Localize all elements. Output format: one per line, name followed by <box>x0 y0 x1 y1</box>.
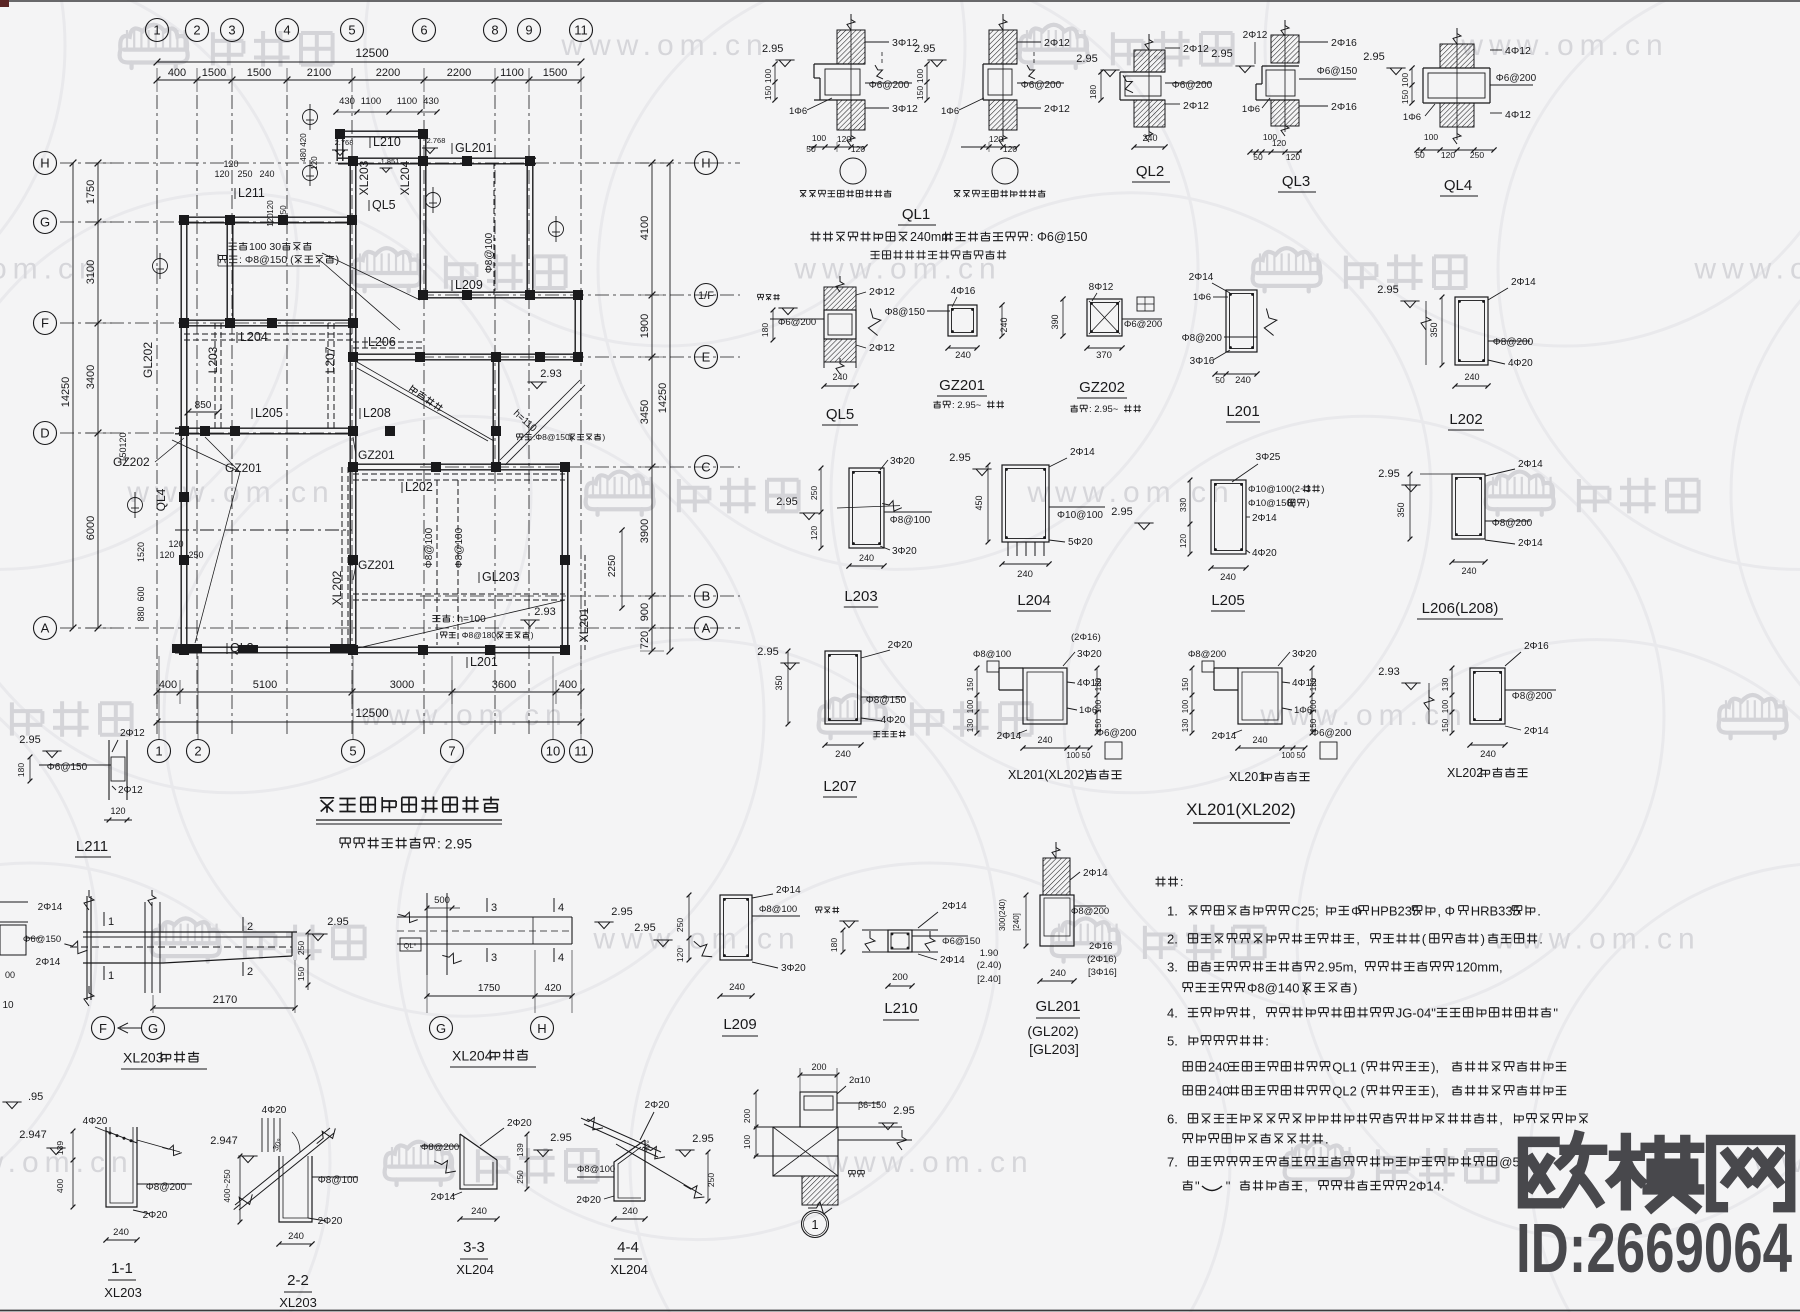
svg-text:100: 100 <box>742 1135 752 1149</box>
svg-text:L201: L201 <box>470 655 498 669</box>
svg-text:2.95: 2.95 <box>1377 284 1398 296</box>
svg-text:2Φ12: 2Φ12 <box>869 286 895 298</box>
svg-text:200: 200 <box>811 1062 826 1072</box>
svg-text:XL204: XL204 <box>610 1262 648 1277</box>
svg-text:2Φ20: 2Φ20 <box>645 1100 670 1111</box>
svg-text:120: 120 <box>989 134 1003 144</box>
svg-text:2Φ12: 2Φ12 <box>1183 100 1209 112</box>
svg-text:L203: L203 <box>844 588 877 605</box>
svg-text:XL201(XL202): XL201(XL202) <box>1186 800 1296 819</box>
svg-text:4Φ12: 4Φ12 <box>1505 45 1531 57</box>
svg-text:240: 240 <box>1464 372 1479 382</box>
svg-text:130: 130 <box>1441 677 1450 691</box>
svg-text:F: F <box>99 1021 107 1036</box>
svg-text:: Φ6@150: : Φ6@150 <box>1030 230 1087 244</box>
svg-text:120: 120 <box>266 200 275 214</box>
svg-text:4-4: 4-4 <box>617 1239 639 1256</box>
svg-text:50: 50 <box>1082 751 1091 760</box>
svg-text:3Φ25: 3Φ25 <box>1256 452 1281 463</box>
svg-text:240: 240 <box>1142 133 1157 143</box>
svg-text:50: 50 <box>1297 751 1306 760</box>
svg-text:8: 8 <box>491 23 498 38</box>
svg-text:www.om.cn: www.om.cn <box>1259 699 1467 732</box>
svg-text:1.90: 1.90 <box>980 948 999 959</box>
svg-text:2.95: 2.95 <box>611 906 632 918</box>
svg-text:2Φ14: 2Φ14 <box>38 902 63 913</box>
svg-text:10: 10 <box>546 744 560 759</box>
svg-text:2.768: 2.768 <box>335 138 354 147</box>
svg-text:XL203: XL203 <box>104 1285 142 1300</box>
svg-text:Φ8@100: Φ8@100 <box>759 904 797 915</box>
svg-text:130: 130 <box>1181 718 1190 732</box>
svg-text:Φ8@100: Φ8@100 <box>890 515 931 526</box>
svg-text:139: 139 <box>516 1143 525 1157</box>
svg-text:XL203: XL203 <box>123 1049 164 1065</box>
svg-text:240: 240 <box>259 169 274 179</box>
svg-text:www.om.cn: www.om.cn <box>1460 29 1668 62</box>
svg-text:L204: L204 <box>240 330 268 344</box>
svg-text:2Φ20: 2Φ20 <box>143 1210 168 1221</box>
svg-text:2: 2 <box>247 921 253 933</box>
svg-text:,: , <box>1304 1178 1308 1193</box>
svg-text:: Φ8@180(: : Φ8@180( <box>457 630 499 640</box>
svg-text:4Φ12: 4Φ12 <box>1292 678 1317 689</box>
svg-text:JG-04": JG-04" <box>1396 1005 1436 1020</box>
svg-text:50: 50 <box>806 144 816 154</box>
svg-text:): ) <box>1307 498 1310 509</box>
svg-text:2Φ16: 2Φ16 <box>1524 641 1549 652</box>
svg-text:880: 880 <box>136 606 146 621</box>
svg-text:Φ6@200: Φ6@200 <box>1021 80 1062 91</box>
svg-text:(2.40): (2.40) <box>977 960 1002 971</box>
svg-text:400: 400 <box>168 67 186 79</box>
svg-text:1Φ6: 1Φ6 <box>1294 705 1312 716</box>
svg-text:2.95: 2.95 <box>1363 51 1384 63</box>
svg-text:100: 100 <box>1400 73 1410 87</box>
svg-text:5100: 5100 <box>253 679 277 691</box>
svg-text:1Φ6: 1Φ6 <box>1242 104 1260 115</box>
svg-text:100: 100 <box>1181 699 1190 713</box>
svg-text:2.95: 2.95 <box>634 922 655 934</box>
svg-text:150: 150 <box>915 86 925 100</box>
svg-text:1/F: 1/F <box>698 290 714 302</box>
svg-text:L211: L211 <box>76 838 108 855</box>
svg-text:L201: L201 <box>1226 403 1259 420</box>
svg-text:120: 120 <box>266 213 275 227</box>
svg-text:11: 11 <box>574 23 588 38</box>
svg-text:XL202: XL202 <box>1447 766 1483 780</box>
svg-text:4Φ12: 4Φ12 <box>1505 109 1531 121</box>
svg-text:2250: 2250 <box>607 554 618 577</box>
svg-text:D: D <box>40 426 49 441</box>
svg-text:[3Φ16]: [3Φ16] <box>1088 967 1117 978</box>
svg-text:450: 450 <box>974 495 984 510</box>
svg-text:Φ8@150: Φ8@150 <box>885 307 926 318</box>
svg-text:350: 350 <box>1396 502 1406 517</box>
svg-text:GL202: GL202 <box>141 342 155 378</box>
svg-text:250: 250 <box>516 1170 525 1184</box>
svg-text:4Φ20: 4Φ20 <box>83 1116 108 1127</box>
svg-text:XL204: XL204 <box>452 1047 493 1063</box>
svg-text:Φ8@200: Φ8@200 <box>1071 906 1109 917</box>
svg-text:2.95: 2.95 <box>19 734 40 746</box>
svg-text:7: 7 <box>448 744 455 759</box>
svg-text:QL3: QL3 <box>1282 173 1310 190</box>
svg-text:2.95m,: 2.95m, <box>1317 959 1357 974</box>
svg-text:2200: 2200 <box>447 67 471 79</box>
svg-text:2200: 2200 <box>376 67 400 79</box>
svg-text:": " <box>1195 1178 1200 1193</box>
svg-text:14250: 14250 <box>60 377 72 408</box>
svg-text:2100: 2100 <box>307 67 331 79</box>
svg-text:": " <box>1553 1005 1558 1020</box>
svg-text:Φ10@100: Φ10@100 <box>1057 510 1103 521</box>
svg-text:3400: 3400 <box>85 365 97 389</box>
svg-text:): ) <box>1321 484 1324 495</box>
svg-text:, Φ: , Φ <box>1437 903 1455 918</box>
svg-text:240: 240 <box>1480 749 1496 760</box>
svg-text:1.: 1. <box>1167 903 1178 918</box>
svg-text:2.95: 2.95 <box>757 646 778 658</box>
svg-text:A: A <box>41 621 50 636</box>
svg-text:2Φ20: 2Φ20 <box>888 640 913 651</box>
svg-text:): ) <box>1481 931 1485 946</box>
svg-text:120: 120 <box>809 526 819 540</box>
svg-text:1500: 1500 <box>202 67 226 79</box>
svg-text:00: 00 <box>5 970 15 980</box>
svg-text:2Φ14: 2Φ14 <box>942 901 967 912</box>
svg-text:150: 150 <box>966 677 975 691</box>
svg-text:L207: L207 <box>323 346 337 373</box>
svg-text:H: H <box>40 156 49 171</box>
svg-text:QL1: QL1 <box>902 206 930 223</box>
svg-text:L203: L203 <box>206 346 220 373</box>
svg-text:2.95: 2.95 <box>1211 48 1232 60</box>
svg-text:L204: L204 <box>1017 592 1050 609</box>
svg-text:120: 120 <box>118 432 128 447</box>
svg-text:3: 3 <box>491 952 497 964</box>
svg-text:Φ6@200: Φ6@200 <box>1311 728 1352 739</box>
svg-text:Φ6@200: Φ6@200 <box>1096 728 1137 739</box>
svg-text:Φ8@100: Φ8@100 <box>318 1175 359 1186</box>
svg-text:2.95: 2.95 <box>1378 468 1399 480</box>
svg-text:2Φ16: 2Φ16 <box>1331 101 1357 113</box>
svg-text:300(240): 300(240) <box>998 899 1007 931</box>
svg-text:390: 390 <box>1050 314 1060 329</box>
svg-text:150: 150 <box>296 967 306 981</box>
svg-text:500: 500 <box>434 895 450 906</box>
svg-text:2Φ14: 2Φ14 <box>1083 868 1108 879</box>
svg-text:400: 400 <box>559 679 577 691</box>
svg-text:2Φ16: 2Φ16 <box>1331 37 1357 49</box>
svg-text:),: ), <box>1431 1083 1439 1098</box>
svg-text:2Φ14: 2Φ14 <box>1511 277 1536 288</box>
svg-text:240: 240 <box>729 982 745 993</box>
svg-text:1520: 1520 <box>136 542 146 562</box>
svg-text:180: 180 <box>16 763 26 777</box>
svg-text:3Φ20: 3Φ20 <box>1292 649 1317 660</box>
svg-text:Φ8@100: Φ8@100 <box>973 649 1011 660</box>
svg-text:G: G <box>436 1021 446 1036</box>
svg-text:100: 100 <box>763 69 773 83</box>
svg-text:240: 240 <box>1235 375 1251 386</box>
svg-text:XL202: XL202 <box>330 570 344 605</box>
svg-text:Φ6@200: Φ6@200 <box>869 80 910 91</box>
svg-text:720: 720 <box>639 631 651 649</box>
svg-text:240: 240 <box>1252 735 1267 745</box>
svg-text:2.947: 2.947 <box>210 1135 238 1147</box>
svg-text:1100: 1100 <box>361 96 381 107</box>
svg-text:.: . <box>1539 931 1543 946</box>
svg-text:3600: 3600 <box>492 679 516 691</box>
svg-text:100: 100 <box>1424 132 1438 142</box>
svg-text:2.95: 2.95 <box>550 1132 571 1144</box>
svg-text:Φ8@200: Φ8@200 <box>1182 333 1223 344</box>
svg-text:4Φ16: 4Φ16 <box>951 286 976 297</box>
svg-text:120: 120 <box>837 134 851 144</box>
svg-text:150: 150 <box>763 86 773 100</box>
svg-text:120: 120 <box>110 806 125 816</box>
svg-text:240: 240 <box>471 1206 487 1217</box>
svg-text:L211: L211 <box>238 186 265 200</box>
svg-text:250: 250 <box>188 550 203 560</box>
svg-text:50: 50 <box>1253 152 1263 162</box>
svg-text:240: 240 <box>1461 566 1476 576</box>
svg-text:1750: 1750 <box>85 180 97 204</box>
svg-text:),: ), <box>1431 1059 1439 1074</box>
svg-text:9: 9 <box>525 23 532 38</box>
svg-text:Φ10@100(2~3: Φ10@100(2~3 <box>1248 484 1311 495</box>
svg-text:4Φ20: 4Φ20 <box>1252 548 1277 559</box>
svg-text:: Φ8@150 (: : Φ8@150 ( <box>239 254 294 266</box>
svg-text:QL2: QL2 <box>1136 163 1164 180</box>
svg-text:11: 11 <box>574 744 588 759</box>
svg-text:2Φ12: 2Φ12 <box>1044 37 1070 49</box>
svg-text:100: 100 <box>915 69 925 83</box>
svg-text:4: 4 <box>283 23 290 38</box>
svg-text:L207: L207 <box>823 778 856 795</box>
svg-text:7.: 7. <box>1167 1154 1178 1169</box>
svg-text:14250: 14250 <box>657 383 669 414</box>
svg-text:QL4: QL4 <box>154 488 168 511</box>
svg-text:2Φ12: 2Φ12 <box>869 342 895 354</box>
svg-text:400: 400 <box>55 1179 65 1193</box>
svg-text:420: 420 <box>545 983 562 994</box>
svg-text:QL5: QL5 <box>826 406 854 423</box>
svg-text:2.93: 2.93 <box>540 368 561 380</box>
svg-text:240: 240 <box>1208 1083 1230 1098</box>
svg-text:8Φ12: 8Φ12 <box>1089 282 1114 293</box>
svg-text:2Φ16: 2Φ16 <box>1089 941 1112 952</box>
svg-text:GL201: GL201 <box>1035 998 1080 1015</box>
svg-text:Φ8@140 (: Φ8@140 ( <box>1247 980 1308 995</box>
svg-text:350: 350 <box>1429 322 1439 337</box>
svg-text:3.: 3. <box>1167 959 1178 974</box>
svg-text:2.93: 2.93 <box>1378 666 1399 678</box>
svg-text:1: 1 <box>155 744 162 759</box>
svg-text:2Φ14: 2Φ14 <box>36 957 61 968</box>
svg-text:2.95: 2.95 <box>762 43 783 55</box>
svg-text:[2.40]: [2.40] <box>977 974 1001 985</box>
svg-text:240: 240 <box>832 372 847 382</box>
svg-text:150: 150 <box>1441 718 1450 732</box>
svg-text:L205: L205 <box>255 406 283 420</box>
svg-text:Φ6@200: Φ6@200 <box>1172 80 1213 91</box>
svg-text:600: 600 <box>136 586 146 601</box>
svg-text:240: 240 <box>1050 968 1066 979</box>
svg-text:180: 180 <box>760 323 770 337</box>
svg-text:L206(L208): L206(L208) <box>1422 600 1499 617</box>
svg-text:150: 150 <box>1400 90 1410 104</box>
svg-text:XL201: XL201 <box>577 607 591 642</box>
svg-text:240: 240 <box>1037 735 1052 745</box>
svg-text:5Φ20: 5Φ20 <box>1068 537 1093 548</box>
svg-text:Φ8@200: Φ8@200 <box>421 1142 459 1153</box>
svg-text:3Φ20: 3Φ20 <box>892 546 917 557</box>
svg-text:3: 3 <box>491 902 497 914</box>
svg-text:1900: 1900 <box>639 314 651 338</box>
svg-text:400: 400 <box>159 679 177 691</box>
svg-text:200: 200 <box>892 972 908 983</box>
svg-text:Φ6@150: Φ6@150 <box>942 936 980 947</box>
svg-text:100: 100 <box>1281 751 1295 760</box>
svg-text:L210: L210 <box>884 1000 917 1017</box>
svg-text:240: 240 <box>999 317 1009 332</box>
svg-text:GZ201: GZ201 <box>939 377 985 394</box>
svg-text:6.: 6. <box>1167 1111 1178 1126</box>
svg-text:2170: 2170 <box>213 994 237 1006</box>
svg-text:4Φ20: 4Φ20 <box>1508 358 1533 369</box>
svg-text:4Φ20: 4Φ20 <box>262 1105 287 1116</box>
svg-text:Φ8@200: Φ8@200 <box>1188 649 1226 660</box>
svg-text:2.93: 2.93 <box>534 606 555 618</box>
svg-text:HPB235: HPB235 <box>1371 903 1419 918</box>
svg-text:2Φ14: 2Φ14 <box>1518 459 1543 470</box>
svg-text:": " <box>1226 1178 1231 1193</box>
svg-text:Φ8@100: Φ8@100 <box>577 1164 615 1175</box>
svg-text:240: 240 <box>1220 572 1236 583</box>
svg-text:Φ6@200: Φ6@200 <box>778 317 816 328</box>
svg-text:2Φ12: 2Φ12 <box>1044 103 1070 115</box>
svg-text:2.95: 2.95 <box>893 1105 914 1117</box>
svg-text:2Φ12: 2Φ12 <box>118 785 143 796</box>
svg-text:2.95: 2.95 <box>949 452 970 464</box>
svg-text:1500: 1500 <box>247 67 271 79</box>
svg-text:240: 240 <box>622 1206 638 1217</box>
svg-text:www.om.cn: www.om.cn <box>359 699 567 732</box>
svg-text:L210: L210 <box>373 135 401 149</box>
svg-text:www.om.cn: www.om.cn <box>0 1146 134 1179</box>
svg-text:139: 139 <box>55 1141 65 1155</box>
svg-text:L205: L205 <box>1211 592 1244 609</box>
svg-text:2.95: 2.95 <box>1076 53 1097 65</box>
svg-text:ID:2669064: ID:2669064 <box>1516 1209 1792 1287</box>
svg-text:120: 120 <box>1286 152 1300 162</box>
svg-text:XL201: XL201 <box>1229 770 1265 784</box>
svg-text:2Φ14: 2Φ14 <box>997 731 1022 742</box>
svg-text:L202: L202 <box>1449 411 1482 428</box>
svg-text:3900: 3900 <box>639 519 651 543</box>
svg-text:Φ6@150: Φ6@150 <box>47 762 88 773</box>
svg-text:200: 200 <box>742 1109 752 1123</box>
svg-text:,: , <box>1356 931 1360 946</box>
svg-text:(GL202): (GL202) <box>1027 1023 1078 1039</box>
svg-text:Φ8@200: Φ8@200 <box>1493 337 1534 348</box>
svg-text:GL203: GL203 <box>482 570 520 584</box>
svg-text:100: 100 <box>1441 699 1450 713</box>
svg-text:XL204: XL204 <box>398 160 412 195</box>
svg-text:420: 420 <box>299 133 308 147</box>
svg-text:1-1: 1-1 <box>111 1260 133 1277</box>
svg-text:Φ6@200: Φ6@200 <box>1496 73 1537 84</box>
svg-text:120: 120 <box>675 948 685 962</box>
svg-text:1Φ6: 1Φ6 <box>1403 112 1421 123</box>
svg-text:1: 1 <box>153 23 160 38</box>
svg-text:2.95: 2.95 <box>776 496 797 508</box>
svg-text:4.: 4. <box>1167 1005 1178 1020</box>
svg-text:2Φ14: 2Φ14 <box>1524 726 1549 737</box>
svg-text:240: 240 <box>835 749 851 760</box>
svg-text:2Φ14: 2Φ14 <box>776 885 801 896</box>
svg-text:2Φ14: 2Φ14 <box>1212 731 1237 742</box>
svg-text:5: 5 <box>349 744 356 759</box>
svg-text:Φ8@100: Φ8@100 <box>424 527 435 568</box>
svg-text:3000: 3000 <box>390 679 414 691</box>
svg-text:QL4: QL4 <box>1444 177 1472 194</box>
svg-text:3Φ20: 3Φ20 <box>890 456 915 467</box>
svg-text:4: 4 <box>558 902 564 914</box>
svg-text:180: 180 <box>1088 85 1098 99</box>
svg-text::: : <box>1180 875 1183 889</box>
svg-text:430: 430 <box>423 96 439 107</box>
svg-text:2.768: 2.768 <box>427 136 446 145</box>
svg-text:2Φ14: 2Φ14 <box>431 1192 456 1203</box>
svg-text:2Φ14.: 2Φ14. <box>1409 1178 1445 1193</box>
svg-text:Φ6@150: Φ6@150 <box>23 934 61 945</box>
svg-text:250: 250 <box>237 169 252 179</box>
svg-text::Φ8@150(: :Φ8@150( <box>533 432 573 442</box>
svg-text:250: 250 <box>809 486 819 500</box>
svg-text:2.947: 2.947 <box>19 1129 47 1141</box>
svg-text:350: 350 <box>774 675 784 690</box>
svg-text:240: 240 <box>955 350 971 361</box>
svg-text:240: 240 <box>1017 569 1033 580</box>
svg-text:330: 330 <box>1178 498 1188 512</box>
svg-text:): ) <box>602 432 605 442</box>
svg-text:250: 250 <box>706 1173 716 1187</box>
svg-text:,: , <box>1499 1111 1503 1126</box>
svg-text:480: 480 <box>299 148 308 162</box>
svg-text:: 2.95: : 2.95 <box>437 835 472 851</box>
svg-text:3-3: 3-3 <box>463 1239 485 1256</box>
svg-text:120: 120 <box>1178 534 1188 548</box>
svg-text:100: 100 <box>966 699 975 713</box>
svg-text:2: 2 <box>194 744 201 759</box>
svg-text:430: 430 <box>339 96 355 107</box>
svg-text:12500: 12500 <box>355 706 389 720</box>
svg-text:Φ8@150: Φ8@150 <box>866 695 907 706</box>
svg-text:A: A <box>702 621 711 636</box>
svg-text:100: 100 <box>812 133 826 143</box>
svg-text:240: 240 <box>113 1227 129 1238</box>
svg-text:2Φ12: 2Φ12 <box>1183 43 1209 55</box>
svg-text:L209: L209 <box>455 278 483 292</box>
svg-text:2Φ14: 2Φ14 <box>1252 513 1277 524</box>
svg-text:1Φ6: 1Φ6 <box>1193 292 1211 303</box>
svg-text:www.om.cn: www.om.cn <box>1693 252 1800 285</box>
svg-text:.: . <box>1325 1131 1329 1146</box>
svg-text:L209: L209 <box>723 1016 756 1033</box>
